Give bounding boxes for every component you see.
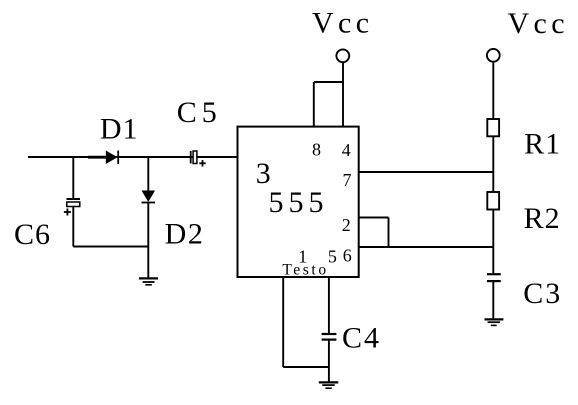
svg-text:Vcc: Vcc xyxy=(507,7,569,40)
svg-text:2: 2 xyxy=(342,215,351,235)
svg-text:8: 8 xyxy=(312,139,321,159)
svg-text:D2: D2 xyxy=(165,218,205,251)
svg-text:6: 6 xyxy=(343,245,352,265)
svg-text:5: 5 xyxy=(328,247,337,267)
svg-text:R2: R2 xyxy=(524,202,561,235)
svg-text:C5: C5 xyxy=(177,96,222,129)
svg-text:4: 4 xyxy=(342,140,351,160)
svg-text:C4: C4 xyxy=(342,321,381,354)
svg-text:C6: C6 xyxy=(14,218,51,251)
svg-text:Vcc: Vcc xyxy=(312,7,374,40)
svg-text:R1: R1 xyxy=(524,127,561,160)
svg-text:7: 7 xyxy=(343,170,352,190)
svg-text:3: 3 xyxy=(256,157,271,190)
svg-text:C3: C3 xyxy=(523,277,562,310)
svg-text:D1: D1 xyxy=(100,112,139,145)
svg-text:555: 555 xyxy=(269,186,329,219)
svg-text:Testo: Testo xyxy=(282,262,328,279)
